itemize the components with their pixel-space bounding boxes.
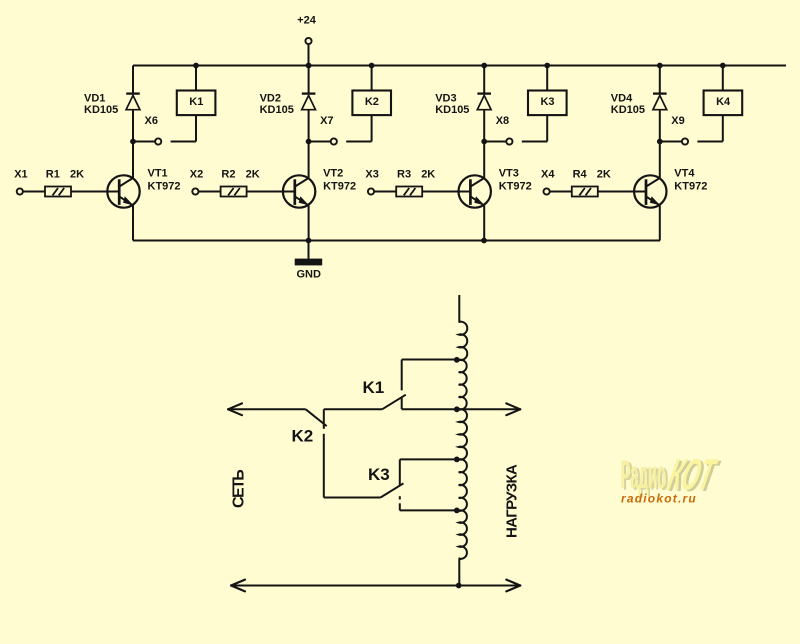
svg-text:X2: X2 — [190, 169, 203, 181]
contact K1 upper fixed wire to tap — [402, 360, 459, 391]
svg-text:K1: K1 — [363, 378, 385, 397]
relay coil K4 — [704, 66, 743, 142]
svg-text:KD105: KD105 — [435, 104, 469, 116]
contact K2 blade — [292, 409, 327, 445]
wire — [199, 191, 221, 193]
node VD3 collector junction — [481, 139, 487, 145]
wire emitter — [659, 206, 661, 241]
node VD1 collector junction — [130, 139, 136, 145]
node VD2 collector junction — [306, 139, 312, 145]
svg-text:K2: K2 — [292, 427, 314, 446]
wire collector — [132, 142, 134, 178]
wire — [550, 191, 572, 193]
transistor VT2 KT972 — [283, 168, 356, 208]
terminal X2 — [190, 169, 203, 195]
svg-text:2K: 2K — [597, 169, 611, 181]
svg-text:+24: +24 — [297, 15, 317, 27]
logo РадиоКОТ watermark — [621, 450, 725, 501]
svg-text:KD105: KD105 — [260, 104, 294, 116]
wire — [23, 191, 45, 193]
node VD4 rail junction — [657, 63, 663, 69]
node +24 junction — [306, 63, 312, 69]
svg-text:VT4: VT4 — [674, 168, 695, 180]
diode VD3 KD105 — [435, 66, 491, 142]
svg-text:KD105: KD105 — [84, 104, 118, 116]
transformer T1 autotransformer winding — [459, 295, 468, 586]
svg-text:R1: R1 — [46, 169, 60, 181]
svg-text:СЕТЬ: СЕТЬ — [231, 470, 248, 508]
svg-text:X7: X7 — [320, 115, 333, 127]
relay coil K2 — [352, 66, 391, 142]
wire base — [71, 191, 119, 193]
terminal X4 — [541, 169, 555, 195]
svg-text:X6: X6 — [145, 115, 158, 127]
svg-text:KT972: KT972 — [499, 181, 532, 193]
node K1 rail junction — [193, 63, 199, 69]
node tap3 — [454, 457, 460, 463]
relay coil K1 — [177, 66, 216, 142]
wire emitter — [308, 206, 310, 241]
node tap2 mains — [454, 406, 460, 412]
svg-text:2K: 2K — [70, 169, 84, 181]
svg-text:K3: K3 — [368, 465, 390, 484]
svg-text:R2: R2 — [221, 169, 235, 181]
contact K1 blade — [363, 378, 406, 410]
wire mains line left with arrow — [228, 403, 306, 415]
contact K3 lower fixed wire to tap — [400, 496, 459, 510]
svg-text:KT972: KT972 — [148, 181, 181, 193]
svg-text:K2: K2 — [365, 96, 379, 108]
wire load line bottom with arrows — [231, 580, 520, 592]
node tap4 — [454, 508, 460, 514]
wire collector — [659, 142, 661, 178]
svg-text:KT972: KT972 — [674, 181, 707, 193]
svg-text:2K: 2K — [421, 169, 435, 181]
diode VD4 KD105 — [611, 66, 667, 142]
svg-text:VD1: VD1 — [84, 93, 105, 105]
resistor R2 2K — [221, 169, 260, 197]
svg-text:K4: K4 — [716, 96, 731, 108]
wire emitter — [483, 206, 485, 241]
svg-text:KT972: KT972 — [323, 181, 356, 193]
wire base — [422, 191, 470, 193]
node VT3 emitter junction — [481, 238, 487, 244]
svg-text:VT2: VT2 — [323, 168, 343, 180]
transistor VT4 KT972 — [634, 168, 707, 208]
node K3 rail junction — [544, 63, 550, 69]
label НАГРУЗКА — [504, 464, 521, 538]
svg-text:X4: X4 — [541, 169, 555, 181]
terminal X7 relay contact tap — [309, 115, 372, 145]
wire — [374, 191, 396, 193]
ground — [295, 241, 323, 281]
resistor R3 2K — [396, 169, 435, 197]
terminal X1 — [14, 169, 27, 195]
wire emitter ground rail — [133, 240, 660, 242]
wire collector — [483, 142, 485, 178]
svg-text:K1: K1 — [189, 96, 203, 108]
wire collector — [308, 142, 310, 178]
svg-text:R3: R3 — [397, 169, 411, 181]
terminal X3 — [365, 169, 378, 195]
svg-text:VD2: VD2 — [260, 93, 281, 105]
svg-text:VT3: VT3 — [499, 168, 519, 180]
transistor VT3 KT972 — [459, 168, 532, 208]
wire base — [598, 191, 646, 193]
diode VD1 KD105 — [84, 66, 140, 142]
svg-text:VT1: VT1 — [148, 168, 168, 180]
wire emitter — [132, 206, 134, 241]
wire K2 to K3 — [324, 434, 381, 498]
terminal X9 relay contact tap — [660, 115, 723, 145]
contact K3 blade — [368, 465, 404, 498]
node VT2 emitter junction — [306, 238, 312, 244]
terminal +24 — [297, 15, 317, 66]
wire mains line right with arrow — [402, 397, 521, 415]
svg-text:X3: X3 — [365, 169, 378, 181]
label СЕТЬ — [231, 470, 248, 508]
svg-text:VD4: VD4 — [611, 93, 633, 105]
svg-text:X8: X8 — [496, 115, 509, 127]
node VD2 rail junction — [306, 63, 312, 69]
resistor R4 2K — [572, 169, 611, 197]
svg-text:KD105: KD105 — [611, 104, 645, 116]
node VD3 rail junction — [481, 63, 487, 69]
transistor VT1 KT972 — [107, 168, 180, 208]
node K4 rail junction — [720, 63, 726, 69]
wire +24 power rail — [133, 65, 786, 67]
svg-text:K3: K3 — [540, 96, 554, 108]
svg-text:2K: 2K — [246, 169, 260, 181]
relay coil K3 — [528, 66, 567, 142]
svg-text:radiokot.ru: radiokot.ru — [621, 492, 697, 506]
contact K3 upper fixed wire to tap — [400, 459, 459, 486]
svg-text:GND: GND — [296, 269, 321, 281]
node K2 rail junction — [369, 63, 375, 69]
node tap1 — [454, 357, 460, 363]
wire base — [247, 191, 295, 193]
node VD4 collector junction — [657, 139, 663, 145]
svg-text:VD3: VD3 — [435, 93, 456, 105]
terminal X6 relay contact tap — [133, 115, 196, 145]
contact K2 upper fixed — [324, 409, 382, 429]
svg-text:X1: X1 — [14, 169, 27, 181]
diode VD2 KD105 — [260, 66, 316, 142]
svg-text:X9: X9 — [671, 115, 684, 127]
node transformer bottom junction — [456, 583, 462, 589]
resistor R1 2K — [45, 169, 84, 197]
terminal X8 relay contact tap — [484, 115, 547, 145]
svg-text:R4: R4 — [573, 169, 588, 181]
svg-text:НАГРУЗКА: НАГРУЗКА — [504, 464, 521, 538]
logo radiokot.ru — [621, 492, 697, 506]
